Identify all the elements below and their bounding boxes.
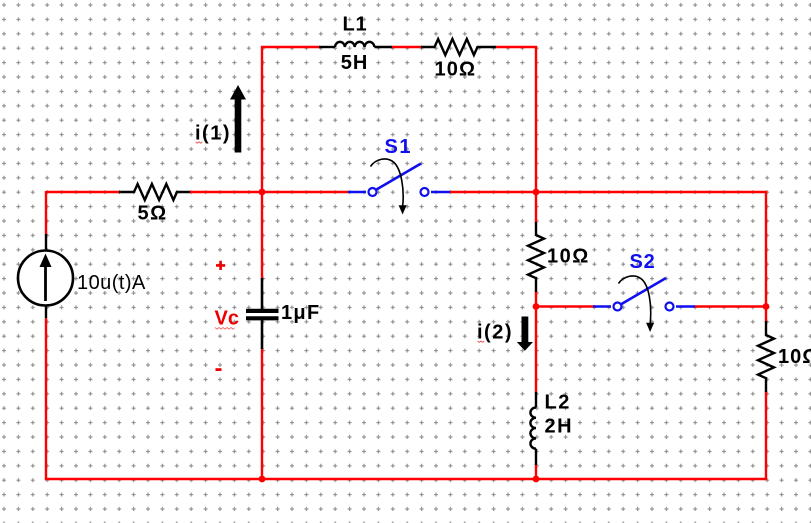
wire top-left horizontal (node A to L1)	[261, 46, 320, 48]
svg-text:5H: 5H	[341, 52, 369, 74]
resistor 10ohm middle	[528, 222, 544, 292]
spellcheck squiggle under Vc	[215, 328, 235, 330]
wire switch S1 to node E	[450, 191, 767, 193]
resistor 5ohm	[119, 184, 190, 200]
polarity plus sign	[216, 261, 225, 270]
capacitor C (1uF)	[246, 278, 279, 349]
wire node C down to capacitor	[261, 192, 263, 279]
wire L2 to node K	[535, 464, 537, 480]
current source 10u(t)A	[18, 234, 73, 318]
node D junction dot	[533, 189, 540, 196]
polarity minus sign	[216, 368, 222, 371]
svg-text:S1: S1	[385, 136, 412, 158]
svg-text:L1: L1	[343, 14, 368, 36]
wire right rail below right 10ohm to node L	[765, 391, 767, 480]
switch S2	[593, 276, 695, 332]
wire left drop node A to node C	[261, 46, 263, 192]
svg-text:2H: 2H	[545, 415, 574, 437]
resistor 10ohm top	[421, 39, 496, 55]
wire left rail above current source	[45, 191, 47, 235]
spellcheck squiggle under i(1)	[196, 142, 203, 143]
node G junction dot	[533, 303, 540, 310]
svg-text:10Ω: 10Ω	[547, 246, 590, 268]
node K junction dot	[533, 476, 540, 483]
svg-text:10u(t)A: 10u(t)A	[77, 272, 146, 294]
svg-text:L2: L2	[545, 391, 571, 413]
wire bottom rail node I to node L	[45, 478, 767, 480]
svg-text:i(1): i(1)	[195, 122, 231, 144]
spellcheck squiggle under i(2)	[478, 341, 485, 342]
wire node G to switch S2	[536, 305, 595, 307]
inductor L2	[530, 392, 536, 465]
wire node C to switch S1	[262, 191, 348, 193]
node C junction dot	[259, 189, 266, 196]
resistor 10ohm right	[758, 321, 774, 392]
switch S1	[348, 159, 450, 215]
wire node D down to middle 10ohm	[535, 191, 537, 223]
wire middle 10ohm to node G and down to L2	[535, 291, 537, 393]
current arrow i(2)	[517, 317, 533, 351]
wire capacitor to node J	[261, 348, 263, 480]
svg-text:i(2): i(2)	[477, 322, 513, 344]
svg-text:Vc: Vc	[215, 308, 239, 330]
svg-text:S2: S2	[630, 251, 656, 273]
inductor L1	[319, 42, 392, 47]
wire between L1 and top 10ohm resistor	[391, 46, 422, 48]
wire left rail from node F to 5ohm	[46, 191, 120, 193]
svg-text:10Ω: 10Ω	[778, 346, 811, 368]
svg-text:5Ω: 5Ω	[138, 203, 168, 225]
svg-text:1μF: 1μF	[281, 302, 320, 324]
wire from 5ohm to node C	[190, 191, 262, 193]
current arrow i(1)	[230, 85, 246, 153]
svg-text:10Ω: 10Ω	[435, 59, 477, 81]
node J junction dot	[259, 476, 266, 483]
wire top-right horizontal to node B	[495, 46, 537, 48]
node H junction dot	[763, 303, 770, 310]
wire right drop node B to node D	[535, 46, 537, 193]
wire switch S2 to node H	[694, 305, 766, 307]
wire left rail below current source to node I	[45, 318, 47, 480]
wire right rail node E down to right 10ohm	[765, 191, 767, 322]
